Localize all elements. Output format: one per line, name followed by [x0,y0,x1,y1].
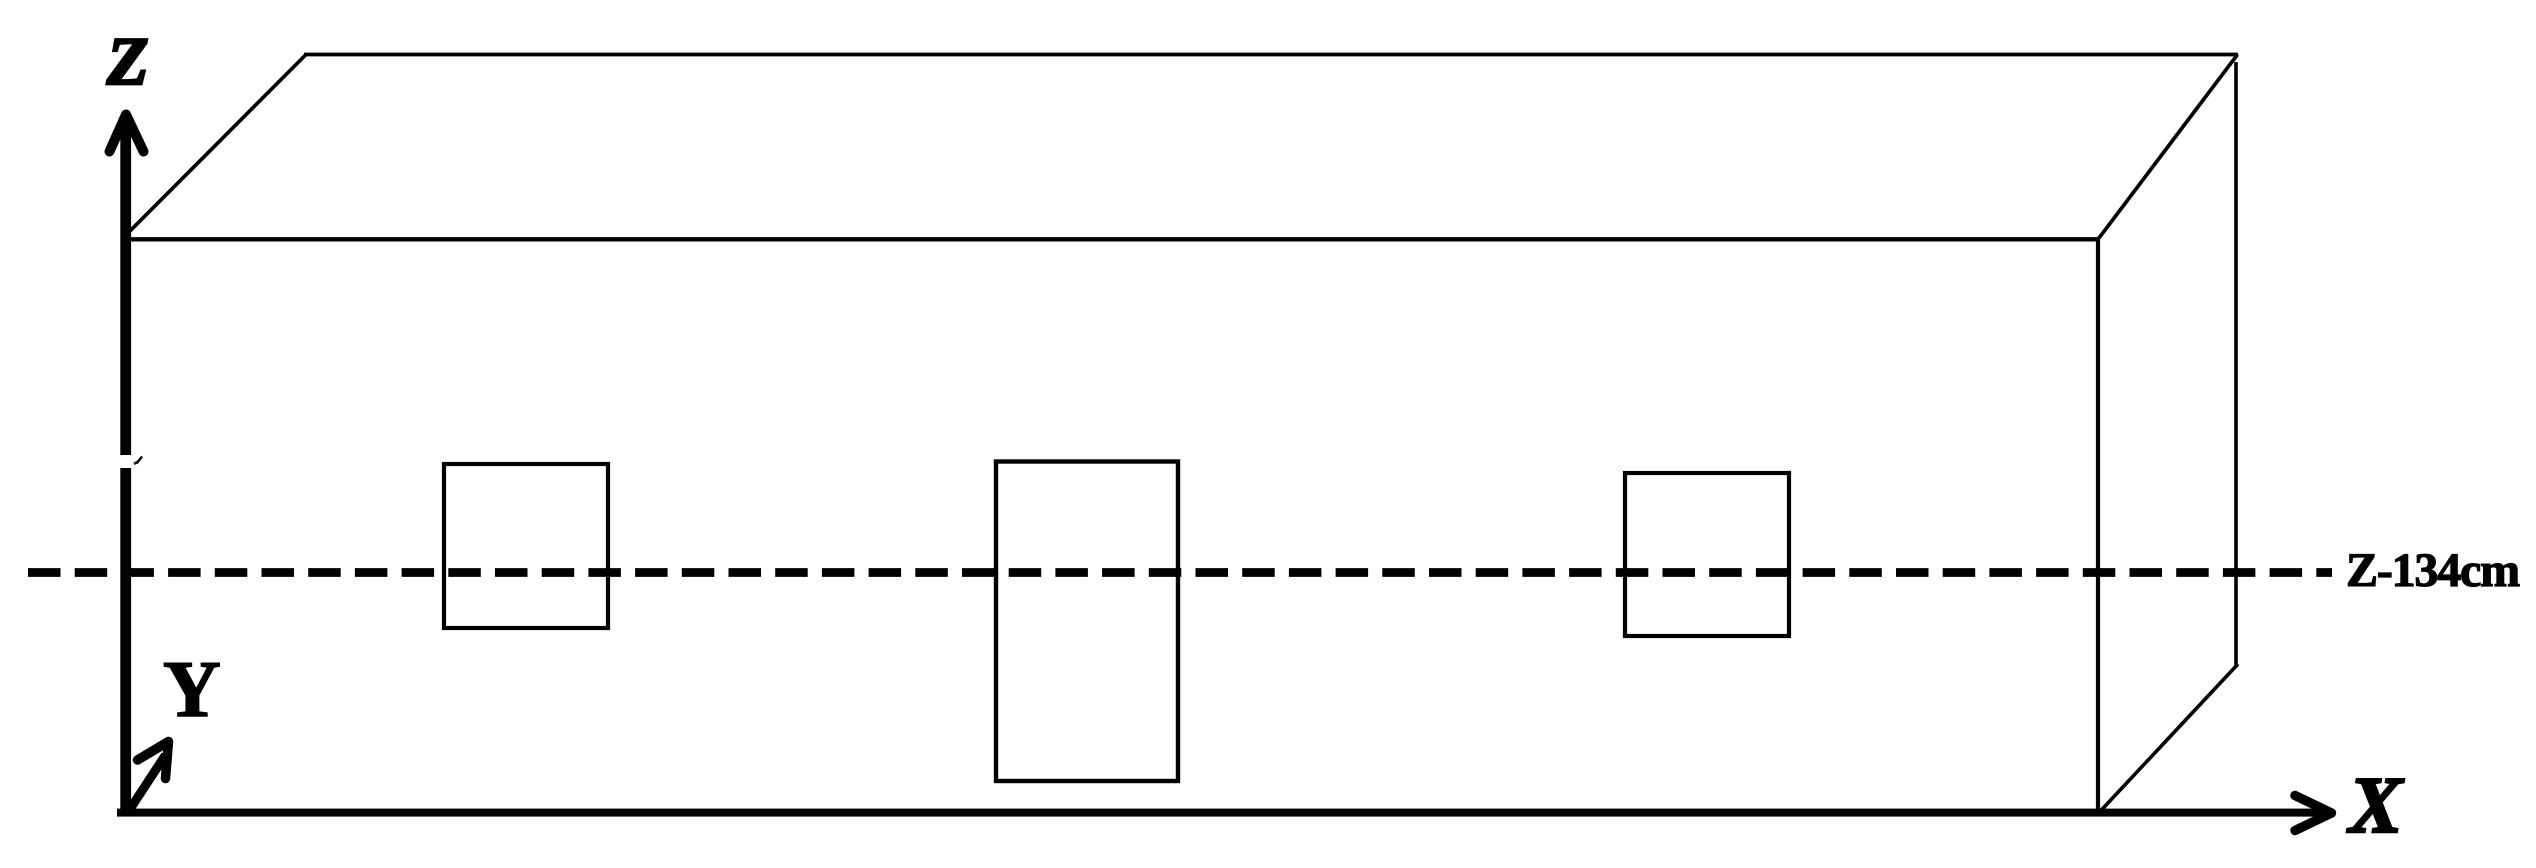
Z axis arrowhead [110,115,144,152]
box front right edge [2096,237,2100,814]
rectangle 1 (left square) [444,464,608,628]
box back top edge [304,53,2238,57]
Z axis break squiggle [134,457,142,465]
box left top diagonal [123,55,306,239]
box bottom right diagonal [2100,664,2238,812]
X axis [117,809,2322,817]
svg-text:Z: Z [106,23,149,99]
Y axis arrowhead [138,742,169,779]
box back right vertical edge [2234,62,2238,666]
box right top diagonal [2099,55,2238,239]
svg-text:X: X [2346,762,2404,850]
X axis arrowhead [2295,796,2332,831]
Z axis lower segment [120,468,131,817]
rectangle 3 (right square) [1625,473,1789,636]
Z axis upper segment [120,116,131,455]
svg-text:Y: Y [163,646,221,734]
box front top edge [123,237,2099,241]
dashed line Z-134cm [28,568,2332,577]
rectangle 2 (middle tall) [996,462,1178,782]
Y axis shaft [130,755,166,809]
svg-text:Z-134cm: Z-134cm [2346,544,2520,597]
